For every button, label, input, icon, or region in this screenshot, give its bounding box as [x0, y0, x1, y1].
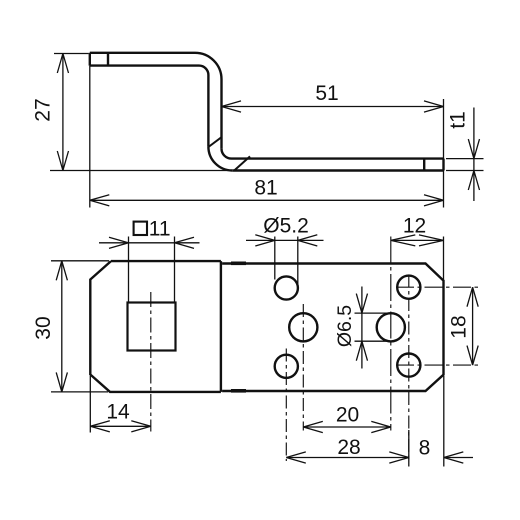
dimension square-11 arrow right-pointing	[109, 237, 129, 248]
dimension 6.5 extension bottom	[355, 340, 389, 342]
dimension 12 arrow left	[391, 235, 416, 246]
svg-text:18: 18	[448, 315, 471, 338]
svg-text:51: 51	[315, 82, 338, 105]
dimension 30 extension top	[51, 260, 109, 262]
right column vertical centerline	[408, 275, 410, 462]
extension line left end vertical	[89, 66, 91, 208]
svg-text:Ø5.2: Ø5.2	[263, 215, 309, 238]
dimension square-11 arrow left-pointing	[175, 237, 195, 248]
square hole vertical centerline	[150, 292, 152, 432]
dimension 30 arrow up	[56, 261, 67, 281]
dimension 27 line	[62, 54, 64, 171]
dimension t1 line	[473, 108, 475, 202]
side view: bottom bend inner arc	[222, 149, 232, 159]
dimension 28 arrow right	[389, 452, 409, 463]
dimension dia5.2 extension right	[297, 237, 299, 289]
dimension 14 line	[90, 425, 151, 427]
dimension 27 arrow up	[57, 54, 68, 74]
dimension 14 arrow right	[131, 421, 151, 432]
dimension 12 line	[391, 239, 444, 241]
dimension dia5.2 line	[246, 239, 324, 241]
dimension 30 line	[61, 261, 63, 392]
dimension dia5.2 arrow right-pointing	[255, 235, 274, 246]
dimension 20 arrow right	[371, 421, 391, 432]
dimension 18 arrow up	[467, 287, 478, 307]
svg-text:28: 28	[337, 436, 360, 459]
side view: left end divider	[107, 53, 109, 66]
dimension 28 arrow left	[286, 452, 306, 463]
hole middle-right diameter 6.5	[377, 313, 405, 341]
dimension 27 arrow down	[57, 151, 68, 171]
middle-left hole vertical centerline	[302, 304, 304, 431]
dimension 18 arrow down	[467, 346, 478, 366]
dimension t1 extension bottom	[446, 170, 484, 172]
hole top-left diameter 5.2	[275, 276, 298, 299]
svg-text:14: 14	[106, 401, 130, 424]
side view: right end divider	[423, 159, 425, 171]
plan view: square hole 11	[128, 303, 176, 351]
svg-text:t1: t1	[447, 111, 470, 129]
plan view: bend line	[220, 261, 222, 392]
side view: bend tangent mark on flange	[235, 156, 251, 170]
dimension 8 extension at column	[408, 430, 410, 467]
dimension 6.5 extension top	[355, 312, 389, 314]
svg-text:27: 27	[32, 98, 55, 121]
dimension t1 arrow down	[468, 139, 479, 159]
side view: bottom flange top edge	[232, 157, 444, 159]
plan view: thick mark bottom near bend	[231, 389, 246, 393]
dimension 27 extension line top	[54, 53, 89, 55]
dimension 51 line	[222, 106, 444, 108]
dimension 8 arrow left-pointing	[444, 452, 464, 463]
dimension square-11 extension left	[128, 237, 130, 303]
dimension 81 arrow left	[90, 195, 110, 206]
left column vertical centerline	[285, 349, 287, 462]
dimension 20 arrow left	[303, 421, 323, 432]
dimension square-11 extension right	[174, 237, 176, 303]
dimension dia5.2 extension left	[274, 237, 276, 280]
svg-text:12: 12	[403, 215, 426, 238]
dimension 14 arrow left	[90, 421, 110, 432]
hole bottom-left diameter 5.2	[275, 355, 298, 378]
dimension 30 extension bottom	[51, 391, 108, 393]
dimension 12 arrow right	[419, 235, 444, 246]
side view: bottom flange bottom edge	[232, 169, 443, 171]
plan view: left portion outline (upper strip from above)	[90, 261, 221, 392]
hole middle-left diameter 6.5	[289, 313, 317, 341]
svg-text:30: 30	[32, 316, 55, 339]
dimension 14 extension left	[89, 376, 91, 433]
dimension 6.5 arrow down	[356, 294, 367, 314]
dimension 8 line tail	[444, 457, 473, 459]
dimension 8 extension right	[443, 376, 445, 467]
dimension 30 arrow down	[56, 372, 67, 392]
dimension 20 line	[303, 426, 391, 428]
dimension 6.5 arrow up	[356, 341, 367, 361]
plan view: right portion outline (bottom flange from above)	[222, 264, 443, 392]
dimension dia5.2 arrow left-pointing	[298, 235, 318, 246]
svg-text:11: 11	[149, 218, 171, 241]
label square 11 symbol	[134, 222, 147, 235]
dimension 51 arrow left	[222, 101, 242, 112]
dimension square-11 line	[99, 242, 200, 244]
hole bottom-right diameter 5.2	[397, 354, 420, 377]
svg-text:81: 81	[254, 177, 277, 200]
svg-text:8: 8	[419, 437, 431, 460]
dimension 12 extension right	[443, 237, 445, 281]
top-right hole horizontal centerline + 18 extension	[396, 286, 480, 288]
side view: left end edge	[89, 53, 91, 66]
extension line right end vertical	[443, 99, 445, 208]
svg-text:20: 20	[336, 404, 359, 427]
dimension t1 arrow up	[468, 171, 479, 191]
dimension 27 extension line bottom	[50, 170, 231, 172]
dimension 28 line	[286, 457, 409, 459]
svg-text:Ø6.5: Ø6.5	[334, 305, 356, 347]
dimension 18 line	[472, 287, 474, 365]
bottom-right hole horizontal centerline + 18 extension	[396, 364, 480, 366]
side view: bottom bend outer arc	[208, 147, 232, 171]
side view: right end edge	[442, 159, 444, 171]
hole top-right diameter 5.2	[397, 276, 420, 299]
dimension 81 arrow right	[424, 195, 444, 206]
dimension 51 arrow right	[424, 101, 444, 112]
middle-right hole vertical centerline	[390, 237, 392, 431]
dimension 6.5 line	[361, 287, 363, 369]
side view: bracket inner contour top strip	[90, 66, 209, 147]
dimension t1 extension top	[446, 158, 484, 160]
dimension 81 line	[90, 199, 444, 201]
plan view: thick mark top near bend	[231, 261, 246, 265]
side view: bend tangent mark on web	[208, 137, 221, 147]
side view: bracket outer contour	[90, 53, 222, 149]
